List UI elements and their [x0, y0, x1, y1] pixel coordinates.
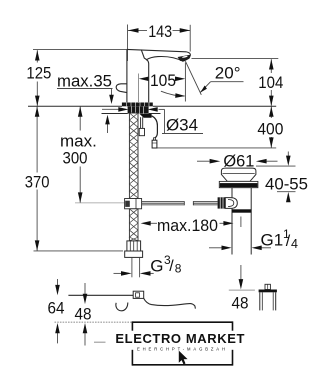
dimension 104 — [192, 59, 279, 106]
dimension 48 — [84, 283, 86, 346]
second connector — [140, 117, 142, 128]
svg-text:143: 143 — [148, 22, 172, 41]
svg-text:125: 125 — [26, 64, 51, 83]
drain flange — [221, 168, 256, 181]
deck bottom line — [102, 113, 161, 115]
dimension 40-55 — [256, 152, 296, 202]
dimension 64 — [57, 279, 59, 343]
small gray dash — [94, 341, 106, 343]
rod connector block — [218, 197, 226, 208]
cable plug — [154, 138, 156, 140]
svg-text:400: 400 — [257, 120, 283, 139]
spout profile detail — [68, 295, 195, 310]
basin rim reference line — [55, 321, 152, 323]
svg-text:4: 4 — [291, 237, 298, 251]
svg-text:48: 48 — [232, 294, 249, 313]
svg-text:max.35: max.35 — [57, 71, 112, 90]
dimension 400 — [157, 107, 276, 148]
pop-up rod right segment — [193, 201, 217, 205]
dimension G 3/8 — [114, 258, 154, 278]
svg-text:G1: G1 — [261, 230, 284, 249]
mounting washer below deck — [128, 106, 149, 113]
svg-text:48: 48 — [75, 304, 92, 323]
escutcheon base plate — [122, 103, 153, 107]
svg-text:Ø61: Ø61 — [223, 151, 254, 170]
svg-text:max.180: max.180 — [157, 216, 218, 235]
dimension 143 — [128, 25, 191, 62]
label diameter 34 — [102, 109, 203, 133]
threaded shank upper — [129, 113, 138, 199]
svg-text:8: 8 — [175, 261, 182, 275]
dimension 105 — [138, 74, 140, 103]
dimension 125 — [33, 50, 127, 106]
dimension G1 1/4 — [209, 247, 271, 249]
svg-text:300: 300 — [63, 148, 88, 167]
hose nut — [127, 241, 141, 251]
black wedge under washer — [139, 114, 151, 118]
drain body and tailpipe — [232, 188, 251, 255]
threaded shank lower — [129, 209, 138, 241]
sensor window detail — [133, 291, 144, 298]
svg-text:105: 105 — [150, 71, 176, 90]
svg-text:104: 104 — [258, 73, 283, 92]
drain flange plate — [219, 181, 258, 187]
hose end cap — [125, 251, 143, 257]
tee fitting — [125, 199, 142, 209]
svg-text:64: 64 — [48, 299, 65, 318]
faucet spout outlet — [186, 52, 190, 58]
dimension max.180 — [150, 222, 225, 224]
drain side boss — [225, 198, 237, 209]
dimension 48 right — [240, 217, 242, 285]
deck top line — [28, 105, 276, 107]
gray rod extension line — [75, 202, 125, 204]
svg-text:20°: 20° — [215, 64, 241, 83]
dimension max.300 — [79, 107, 81, 203]
dimension 370 — [34, 107, 124, 251]
faucet side lever — [116, 84, 127, 93]
svg-text:G: G — [150, 256, 163, 275]
faucet body — [127, 49, 186, 102]
mouse cursor — [179, 351, 188, 365]
mounting box detail — [265, 284, 270, 289]
logo box — [132, 321, 232, 365]
svg-text:370: 370 — [25, 172, 50, 191]
svg-text:40-55: 40-55 — [265, 174, 308, 193]
dimension diameter 61 — [197, 160, 278, 162]
svg-text:Ø34: Ø34 — [166, 115, 198, 134]
svg-text:ELECTRO MARKET: ELECTRO MARKET — [115, 331, 244, 346]
sensor cable — [152, 116, 158, 138]
pop-up rod left segment — [142, 201, 185, 205]
svg-text:/: / — [169, 258, 174, 275]
